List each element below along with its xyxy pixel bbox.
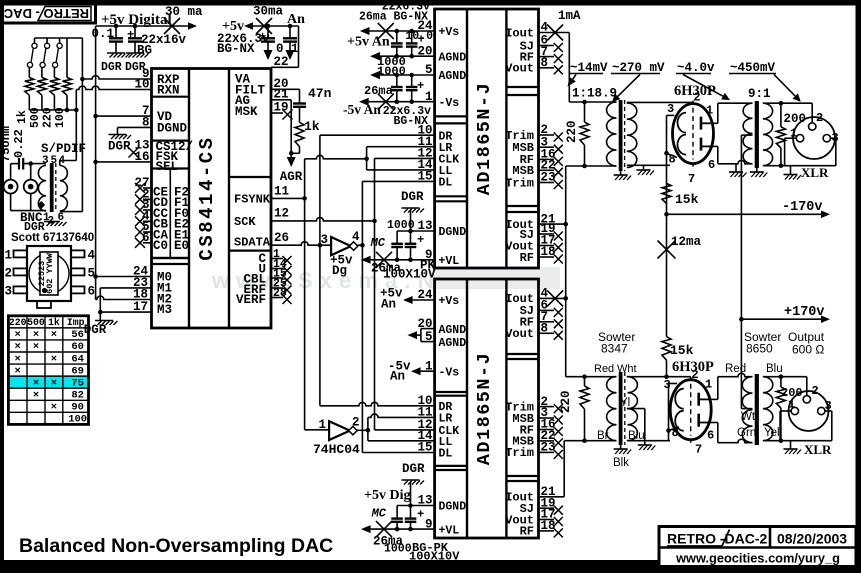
svg-text:An: An: [381, 298, 396, 312]
svg-text:Imp: Imp: [67, 317, 85, 328]
svg-text:4: 4: [59, 155, 66, 167]
svg-text:+Vs: +Vs: [439, 26, 460, 39]
svg-text:12: 12: [274, 207, 289, 221]
svg-text:08/20/2003: 08/20/2003: [777, 531, 847, 547]
svg-text:56: 56: [71, 329, 84, 341]
svg-text:1000: 1000: [377, 65, 406, 79]
svg-text:5: 5: [88, 266, 96, 280]
svg-text:220: 220: [42, 107, 55, 128]
svg-text:6: 6: [707, 429, 714, 443]
svg-text:+VL: +VL: [439, 524, 460, 537]
svg-text:200: 200: [784, 112, 807, 126]
svg-text:+5v Dig: +5v Dig: [364, 488, 410, 503]
svg-text:+170v: +170v: [784, 305, 825, 320]
svg-text:×: ×: [51, 402, 57, 414]
svg-text:+: +: [417, 233, 424, 247]
svg-text:RETRO - DAC: RETRO - DAC: [3, 6, 89, 21]
svg-text:75: 75: [71, 377, 84, 389]
svg-text:1: 1: [5, 248, 13, 262]
svg-text:VERF: VERF: [236, 293, 266, 307]
svg-text:3: 3: [5, 284, 13, 298]
svg-text:1: 1: [318, 418, 326, 432]
svg-text:22523: 22523: [37, 261, 47, 287]
svg-text:500: 500: [29, 107, 42, 128]
svg-text:RETRO -DAC-2: RETRO -DAC-2: [667, 531, 768, 547]
svg-text:2: 2: [5, 266, 13, 280]
svg-text:DGND: DGND: [439, 501, 467, 514]
svg-text:BG: BG: [137, 44, 152, 58]
svg-text:Yl: Yl: [620, 397, 630, 409]
svg-text:16: 16: [134, 150, 149, 164]
svg-text:64: 64: [71, 353, 84, 365]
svg-text:AD1865N-J: AD1865N-J: [474, 352, 495, 465]
svg-text:8347: 8347: [601, 342, 628, 356]
svg-text:2: 2: [691, 368, 698, 382]
svg-text:2: 2: [693, 91, 700, 105]
svg-text:7: 7: [688, 172, 695, 186]
svg-text:1000: 1000: [384, 543, 412, 556]
svg-text:S/PDIF: S/PDIF: [41, 142, 86, 156]
svg-text:2: 2: [352, 416, 360, 430]
svg-text:-Vs: -Vs: [439, 97, 460, 110]
svg-text:1k: 1k: [48, 317, 60, 328]
svg-text:10: 10: [134, 78, 149, 92]
svg-text:MC: MC: [370, 236, 386, 250]
svg-text:2: 2: [816, 111, 823, 125]
svg-text:12ma: 12ma: [671, 235, 702, 249]
svg-text:RF: RF: [520, 525, 534, 539]
svg-text:Trim: Trim: [505, 176, 534, 190]
svg-text:+: +: [417, 508, 424, 522]
svg-text:+: +: [127, 28, 134, 42]
svg-text:26: 26: [274, 231, 289, 245]
svg-text:15k: 15k: [675, 192, 699, 207]
svg-text:Trim: Trim: [505, 446, 534, 460]
svg-text:Blk: Blk: [613, 457, 629, 469]
svg-text:Yel: Yel: [764, 427, 780, 439]
svg-text:Vout: Vout: [505, 327, 534, 341]
svg-text:28: 28: [273, 287, 287, 300]
svg-text:1: 1: [705, 378, 712, 392]
svg-text:Red: Red: [725, 363, 746, 375]
svg-text:30 ma: 30 ma: [165, 5, 203, 19]
svg-text:LR: LR: [439, 413, 453, 426]
svg-text:DGR: DGR: [101, 61, 122, 74]
svg-text:SCK: SCK: [234, 215, 256, 229]
svg-text:BG-NX: BG-NX: [393, 115, 428, 128]
svg-text:+VL: +VL: [439, 255, 460, 268]
svg-text:+5v An: +5v An: [347, 35, 390, 50]
svg-text:XLR: XLR: [801, 165, 829, 180]
svg-text:RF: RF: [520, 251, 534, 265]
svg-text:69: 69: [71, 365, 84, 377]
svg-text:1: 1: [706, 104, 713, 118]
svg-text:AGND: AGND: [439, 51, 467, 64]
svg-text:DGND: DGND: [157, 122, 188, 136]
svg-text:30ma: 30ma: [253, 5, 284, 19]
svg-text:8: 8: [142, 116, 150, 130]
svg-text:DGR: DGR: [401, 190, 424, 204]
svg-text:19: 19: [274, 101, 289, 115]
svg-text:3: 3: [42, 155, 49, 167]
svg-text:DGR: DGR: [402, 462, 425, 476]
svg-text:AGND: AGND: [439, 70, 467, 83]
svg-text:15k: 15k: [670, 343, 694, 358]
svg-text:An: An: [390, 370, 405, 384]
svg-text:1:18.9: 1:18.9: [572, 87, 617, 101]
svg-text:600 Ω: 600 Ω: [792, 343, 824, 357]
svg-text:www.geocities.com/yury_g: www.geocities.com/yury_g: [675, 551, 840, 566]
svg-text:AD1865N-J: AD1865N-J: [474, 82, 495, 195]
svg-text:Scott 67137640: Scott 67137640: [11, 232, 94, 244]
svg-text:220: 220: [565, 120, 579, 143]
svg-text:×: ×: [15, 365, 21, 377]
svg-text:SEL: SEL: [156, 160, 179, 174]
svg-text:7: 7: [695, 443, 702, 457]
svg-text:4: 4: [352, 230, 360, 244]
svg-text:100: 100: [54, 107, 67, 128]
svg-text:9:1: 9:1: [748, 87, 771, 101]
svg-text:DL: DL: [439, 448, 453, 461]
svg-text:An: An: [287, 12, 305, 27]
svg-text:Vout: Vout: [505, 62, 534, 76]
svg-text:90: 90: [71, 402, 84, 414]
svg-text:2: 2: [812, 384, 819, 398]
svg-text:3: 3: [667, 102, 674, 116]
svg-text:82: 82: [71, 390, 84, 402]
svg-text:500: 500: [27, 317, 45, 328]
svg-text:SDATA: SDATA: [234, 236, 271, 250]
svg-text:AGND: AGND: [439, 324, 467, 337]
svg-text:AGND: AGND: [439, 337, 467, 350]
svg-text:+: +: [259, 30, 266, 44]
svg-text:1k: 1k: [304, 119, 320, 134]
svg-text:DGR: DGR: [108, 140, 131, 154]
svg-text:6: 6: [708, 158, 715, 172]
svg-text:Grn: Grn: [737, 427, 756, 439]
svg-text:8: 8: [672, 426, 679, 440]
svg-text:DGR: DGR: [125, 61, 146, 74]
svg-text:+5v Digital: +5v Digital: [101, 12, 172, 28]
svg-text:0.1: 0.1: [91, 27, 114, 41]
svg-text:8: 8: [669, 153, 676, 167]
svg-text:17: 17: [133, 300, 148, 314]
svg-text:×: ×: [51, 353, 57, 365]
svg-text:3: 3: [320, 233, 328, 247]
svg-text:×: ×: [33, 377, 39, 389]
svg-text:26ma BG-NX: 26ma BG-NX: [359, 11, 428, 24]
svg-text:60: 60: [71, 341, 84, 353]
svg-text:×: ×: [51, 329, 57, 341]
svg-text:220: 220: [559, 390, 573, 413]
svg-text:100X10V: 100X10V: [383, 268, 436, 282]
svg-text:BG-NX: BG-NX: [217, 42, 255, 56]
svg-text:×: ×: [15, 329, 21, 341]
svg-text:5: 5: [51, 155, 58, 167]
svg-text:1: 1: [788, 398, 795, 412]
svg-text:Blu: Blu: [766, 363, 783, 375]
svg-text:×: ×: [33, 390, 39, 402]
svg-text:CS8414-CS: CS8414-CS: [196, 135, 218, 260]
svg-text:E0: E0: [174, 239, 189, 253]
svg-text:XLR: XLR: [804, 442, 832, 457]
svg-text:AGR: AGR: [280, 170, 303, 184]
svg-text:100: 100: [68, 414, 87, 426]
svg-text:×: ×: [15, 341, 21, 353]
svg-text:74HC04: 74HC04: [313, 442, 360, 457]
svg-text:×: ×: [33, 341, 39, 353]
svg-text:21: 21: [274, 88, 289, 102]
svg-text:+Vs: +Vs: [439, 295, 460, 308]
svg-text:11: 11: [274, 185, 289, 199]
svg-text:1mA: 1mA: [558, 9, 581, 23]
svg-text:Red: Red: [594, 363, 614, 375]
svg-text:4: 4: [88, 248, 96, 262]
svg-text:Dg: Dg: [332, 264, 347, 278]
svg-text:1000: 1000: [387, 219, 415, 232]
svg-text:3: 3: [664, 378, 671, 392]
svg-text:6: 6: [142, 231, 150, 245]
svg-text:26ma: 26ma: [364, 84, 393, 98]
svg-text:RXN: RXN: [157, 84, 180, 98]
svg-text:DL: DL: [439, 177, 453, 190]
svg-text:Balanced Non-Oversampling DAC: Balanced Non-Oversampling DAC: [19, 535, 333, 557]
svg-text:-Vs: -Vs: [439, 366, 460, 379]
svg-text:22: 22: [274, 55, 289, 69]
svg-text:0.1: 0.1: [276, 42, 299, 56]
svg-text:FSYNK: FSYNK: [234, 192, 271, 206]
svg-text:220: 220: [9, 317, 27, 328]
svg-text:100X10V: 100X10V: [409, 550, 460, 564]
svg-text:M3: M3: [157, 303, 172, 317]
svg-text:×: ×: [33, 329, 39, 341]
svg-text:×: ×: [15, 353, 21, 365]
svg-text:47n: 47n: [308, 86, 332, 101]
svg-text:6: 6: [88, 284, 96, 298]
svg-text:Wt: Wt: [741, 411, 756, 423]
svg-text:+: +: [417, 79, 424, 93]
svg-text:8650: 8650: [746, 342, 773, 356]
svg-text:DGND: DGND: [439, 226, 467, 239]
svg-text:×: ×: [51, 377, 57, 389]
svg-text:MC: MC: [371, 507, 387, 521]
svg-text:+: +: [418, 33, 425, 47]
svg-text:C0: C0: [153, 239, 168, 253]
svg-text:-170v: -170v: [782, 200, 823, 215]
svg-text:Iout: Iout: [505, 26, 534, 40]
svg-text:0.22: 0.22: [12, 129, 26, 158]
svg-text:Br: Br: [597, 430, 609, 442]
svg-text:MSK: MSK: [235, 105, 258, 119]
svg-text:1k: 1k: [16, 110, 29, 124]
svg-text:-5v An: -5v An: [343, 102, 381, 117]
